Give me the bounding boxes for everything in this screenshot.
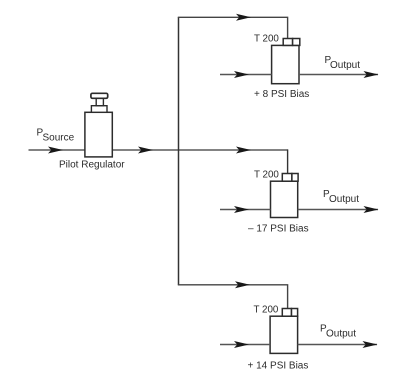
svg-text:Source: Source xyxy=(43,133,75,144)
wire: output of middle T200 xyxy=(298,209,378,211)
wire: top branch to first T200 xyxy=(178,17,288,38)
wire: left supply into middle T200 xyxy=(220,209,271,211)
wire: output of bottom T200 xyxy=(298,344,377,346)
wire: left supply into top T200 xyxy=(220,74,272,76)
wire: vertical bus xyxy=(178,17,180,285)
svg-text:Pilot Regulator: Pilot Regulator xyxy=(59,160,125,171)
svg-text:+ 8 PSI Bias: + 8 PSI Bias xyxy=(254,89,309,100)
wire: left supply into bottom T200 xyxy=(220,344,270,346)
wire: output of top T200 xyxy=(299,74,378,76)
svg-text:T 200: T 200 xyxy=(254,33,279,44)
pilot regulator body xyxy=(85,93,112,157)
svg-text:Output: Output xyxy=(330,60,360,71)
arrow on bottom branch xyxy=(235,281,250,288)
wire: bottom branch to third T200 xyxy=(178,285,288,309)
svg-text:T 200: T 200 xyxy=(254,305,279,316)
arrow on middle branch xyxy=(236,147,251,154)
arrow after pilot regulator xyxy=(138,147,153,154)
svg-text:T 200: T 200 xyxy=(254,170,279,181)
arrow on top branch xyxy=(236,14,251,21)
svg-text:– 17 PSI Bias: – 17 PSI Bias xyxy=(248,224,309,235)
wire: main input line from left to pilot regulator and on to bus, continuing to middle T200 xyxy=(29,149,288,151)
svg-text:+ 14 PSI Bias: + 14 PSI Bias xyxy=(248,361,309,372)
T200 unit 1 (top) xyxy=(272,39,300,84)
T200 unit 2 (middle) xyxy=(271,174,299,218)
svg-text:Output: Output xyxy=(326,329,356,340)
svg-text:Output: Output xyxy=(329,194,359,205)
T200 unit 3 (bottom) xyxy=(270,309,298,354)
arrow on input line before pilot regulator xyxy=(48,147,63,154)
